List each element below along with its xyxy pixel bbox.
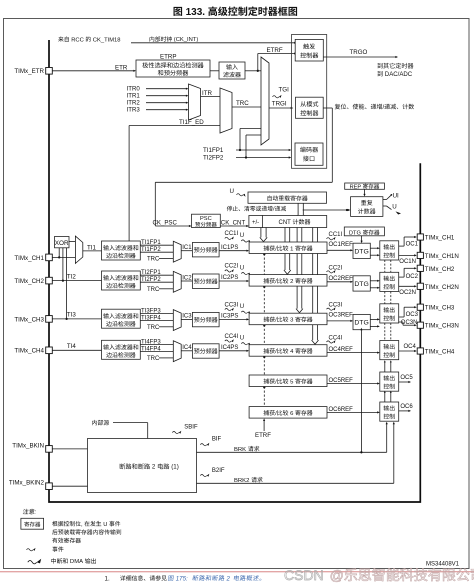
svg-text:TRC: TRC (147, 257, 160, 263)
svg-text:TRGI: TRGI (272, 101, 287, 108)
wire ETR (52, 64, 136, 72)
svg-text:ETRF: ETRF (255, 432, 271, 439)
wire TI2FP2 (140, 277, 173, 283)
svg-text:TRC: TRC (147, 356, 160, 362)
svg-text:BRK2: BRK2 (234, 478, 251, 484)
svg-text:BIF: BIF (212, 436, 222, 442)
svg-text:CK_TIM18: CK_TIM18 (91, 37, 120, 43)
svg-text:IC1: IC1 (182, 245, 192, 251)
wire IC4PS (219, 345, 249, 352)
pin TIMx_CH3N output (417, 322, 423, 328)
svg-text:RCC: RCC (70, 37, 86, 43)
svg-text:TIMx_CH4: TIMx_CH4 (14, 348, 44, 355)
U event into auto-reload (230, 188, 246, 197)
svg-text:5: 5 (289, 379, 296, 385)
svg-text:TIMx_CH2N: TIMx_CH2N (425, 284, 459, 291)
output control box 5 (380, 372, 399, 391)
svg-text:4: 4 (289, 349, 296, 355)
svg-text:TRC: TRC (147, 287, 160, 293)
svg-text:,: , (81, 522, 84, 528)
label TIMx_CH1N right (425, 253, 459, 260)
svg-text:DTG: DTG (354, 248, 368, 255)
pin TIMx_BKIN2 (46, 483, 53, 490)
svg-text:XOR: XOR (55, 240, 69, 247)
mux IC3 select (173, 310, 181, 331)
wire TI1 (83, 244, 102, 251)
input filter & edge detector box ch3 (102, 309, 141, 328)
svg-text:CC1I: CC1I (225, 231, 239, 237)
svg-text:TI2FP2: TI2FP2 (141, 277, 161, 283)
repetition counter box (351, 197, 383, 217)
label ETRP (160, 54, 177, 61)
wire CK_PSC (153, 219, 192, 227)
label TGI with event squiggle (273, 86, 290, 98)
svg-text:TIMx_CH2: TIMx_CH2 (425, 266, 455, 273)
links between output controls (384, 260, 392, 402)
pin TIMx_CH3 (46, 316, 53, 323)
svg-text:TGI: TGI (279, 86, 290, 93)
mux IC2 select (173, 271, 181, 292)
wire OC1 (399, 236, 419, 247)
label stop clear up/down (227, 206, 286, 213)
svg-text:TI4FP4: TI4FP4 (141, 347, 161, 353)
mux TI1 select (69, 236, 83, 263)
mux trigger select (tall) (261, 57, 269, 145)
wire IC1PS (219, 245, 249, 252)
pin TIMx_CH1 (46, 254, 53, 261)
svg-text:@: @ (330, 567, 344, 583)
wire TI1 pin to xor-mux (52, 256, 75, 258)
arrow REP to repetition counter (363, 189, 365, 196)
wire IC3 (181, 314, 192, 320)
DTG box 3 (353, 314, 370, 329)
svg-text:6: 6 (289, 411, 296, 417)
wire TI3 (52, 312, 101, 319)
svg-text:DTG: DTG (349, 230, 363, 236)
svg-text:ITR2: ITR2 (127, 100, 141, 107)
prescaler box ch4 (192, 344, 219, 358)
plus-minus box (249, 216, 263, 228)
wire IC3PS (219, 314, 249, 321)
svg-text:+/-: +/- (252, 220, 259, 226)
label TIMx_BKIN2 (9, 479, 45, 486)
PSC prescaler box (192, 214, 221, 227)
svg-text:IC3PS: IC3PS (221, 314, 238, 320)
mux IC4 select (173, 341, 181, 362)
svg-text:/: / (383, 105, 385, 111)
wire OC2 (399, 267, 419, 280)
svg-text:U: U (102, 522, 109, 528)
svg-text:CSDN: CSDN (284, 567, 328, 583)
wire OC3N (399, 320, 418, 326)
svg-text:B2IF: B2IF (212, 468, 225, 474)
label reset enable updown count (335, 104, 414, 111)
label SBIF event (172, 425, 198, 434)
wire TI1FP1 (140, 240, 173, 246)
legend text line1 (52, 521, 120, 528)
CC2I capture event marker (225, 264, 251, 276)
svg-text:DAC/ADC: DAC/ADC (383, 71, 413, 78)
label TIMx_CH4 right (425, 349, 455, 356)
svg-text:DMA: DMA (68, 559, 84, 565)
svg-text:CC1I: CC1I (329, 232, 343, 238)
wire ITR to mux2 (201, 96, 221, 98)
legend text line3 (52, 538, 81, 543)
svg-text:ETR: ETR (115, 64, 128, 71)
DTG box 2 (353, 276, 370, 291)
arrow DTG-reg to DTG1 (361, 236, 363, 243)
wire OC3REF (327, 312, 353, 322)
svg-text:TRC: TRC (236, 100, 249, 107)
polarity selection and edge detector + prescaler box (136, 60, 210, 77)
label TIMx_CH2N right (425, 284, 459, 291)
svg-text:IC1PS: IC1PS (221, 245, 238, 251)
wire TRC ch3 (147, 325, 173, 331)
wire OC2REF (327, 276, 353, 283)
wire TI2FP2 (203, 135, 291, 162)
svg-text:OC4REF: OC4REF (329, 347, 354, 353)
svg-text:TIMx_CH3N: TIMx_CH3N (425, 323, 459, 330)
wires ITR0-3 to mux (146, 88, 189, 111)
svg-text:IC4: IC4 (182, 345, 192, 351)
svg-text:TI4: TI4 (67, 343, 76, 350)
wire slave mode out (323, 107, 327, 109)
svg-text:TI4FP3: TI4FP3 (141, 340, 161, 346)
capture/compare 5 register box (249, 375, 327, 387)
wire OC6 internal (399, 404, 414, 412)
prescaler box ch2 (192, 274, 219, 288)
pin TIMx_CH4 (46, 347, 53, 354)
wire CK_CNT (220, 219, 249, 227)
comparison lines CNT to capture/compare registers (260, 228, 319, 407)
svg-text:175:: 175: (174, 575, 189, 582)
svg-text:ITR0: ITR0 (127, 86, 141, 93)
svg-text:IC2: IC2 (182, 275, 192, 281)
svg-text:TIMx_CH1: TIMx_CH1 (425, 235, 455, 242)
wire internal source to break box (113, 423, 148, 439)
CC1I capture event marker (225, 231, 251, 243)
svg-text:TI1FP2: TI1FP2 (141, 247, 161, 253)
input filter & edge detector box ch2 (102, 271, 141, 290)
wires DTG2 to output control (370, 280, 380, 289)
label BIF event (200, 436, 221, 445)
wire TI1F_ED (129, 119, 220, 241)
svg-text:U: U (240, 266, 244, 272)
svg-text:OC1: OC1 (406, 241, 419, 247)
label CC2I right (327, 265, 343, 273)
svg-text:CC3I: CC3I (329, 303, 343, 309)
break and break2 circuit box (88, 439, 197, 493)
svg-text:OC1REF: OC1REF (329, 242, 354, 248)
svg-text:TI2: TI2 (67, 273, 76, 280)
legend event symbol (27, 546, 64, 551)
label TIMx_CH4 (14, 348, 44, 355)
label TIMx_CH3 (14, 316, 44, 323)
svg-text:TIMx_CH4: TIMx_CH4 (425, 349, 455, 356)
pin TIMx_BKIN (46, 446, 53, 453)
wire IC2PS (219, 275, 249, 282)
CNT counter box (262, 216, 326, 228)
svg-text:(1): (1) (170, 464, 179, 471)
auto-reload register box (248, 192, 327, 203)
svg-text:ITR: ITR (202, 90, 212, 97)
pin TIMx_CH1 output (417, 234, 423, 240)
svg-text:OC6REF: OC6REF (329, 407, 354, 413)
labels ITR0-ITR3 (127, 86, 141, 114)
legend interrupt/DMA symbol (28, 558, 96, 565)
controller group box (292, 35, 327, 169)
svg-text:U: U (240, 233, 244, 239)
legend note heading (23, 509, 37, 516)
svg-text:TIMx_BKIN: TIMx_BKIN (12, 443, 44, 450)
label internal source (92, 420, 109, 425)
U switch and label (383, 203, 401, 214)
pin TIMx_ETR (46, 68, 53, 75)
wire TRC to trigger mux (232, 100, 261, 107)
svg-text:1: 1 (289, 246, 296, 252)
wire OC6REF (327, 407, 380, 414)
wire slave-mode controls to clock path (reset/enable/updown) (155, 108, 332, 226)
label TIMx_CH2 (14, 278, 44, 285)
output control box 1 (380, 241, 399, 260)
footnote number (105, 575, 110, 582)
label CK_TIM18 from RCC (58, 36, 120, 43)
svg-text:REP: REP (350, 184, 363, 190)
XOR box (55, 237, 70, 248)
svg-text:OC3N: OC3N (401, 320, 418, 326)
pin TIMx_CH3 output (417, 304, 423, 310)
pin TIMx_CH2N output (417, 283, 423, 289)
label TIMx_CH2 right (425, 266, 455, 273)
pin TIMx_CH2 output (417, 265, 423, 271)
DTG box 1 (353, 243, 370, 258)
trigger controller box (295, 39, 323, 61)
wire OC4 (399, 344, 417, 352)
svg-text:SBIF: SBIF (184, 425, 198, 431)
capture/compare 4 register box (249, 345, 327, 357)
wire BKIN2 to break box (52, 485, 87, 487)
wire OC1N (399, 254, 417, 265)
wire TRGI (269, 101, 293, 109)
watermark CSDN (284, 567, 474, 583)
svg-text:OC4: OC4 (404, 344, 417, 350)
output control box 2 (380, 272, 399, 291)
svg-text:TI2FP2: TI2FP2 (203, 155, 224, 162)
footnote link text (168, 575, 261, 582)
svg-text:U: U (230, 188, 234, 195)
svg-text:TIMx_BKIN2: TIMx_BKIN2 (9, 479, 45, 486)
svg-text:OC2REF: OC2REF (329, 276, 354, 282)
svg-text:TRGO: TRGO (350, 49, 368, 56)
wire TI1FP2 (140, 247, 173, 253)
wire TRGO (323, 49, 398, 58)
input filter & edge detector box ch1 (102, 241, 141, 260)
wire TI2 (52, 273, 101, 280)
label MS34408V1 (426, 562, 460, 568)
CC4I capture event marker (225, 334, 251, 346)
svg-text:1.: 1. (105, 575, 110, 582)
wire IC4 (181, 345, 192, 351)
mux IC1 select (173, 241, 181, 262)
svg-text:TRC: TRC (147, 325, 160, 331)
capture/compare 2 register box (249, 275, 327, 287)
svg-text:DTG: DTG (354, 320, 368, 327)
svg-text:CC2I: CC2I (225, 264, 239, 270)
wire TI2FP1 (140, 270, 173, 276)
label TIMx_CH3N right (425, 323, 459, 330)
label BRK2 request (234, 477, 263, 484)
mux ITR select (189, 84, 201, 120)
wire ETRF to CC6 (255, 418, 271, 439)
svg-text:OC3: OC3 (406, 312, 419, 318)
wire U to repetition counter (303, 209, 351, 211)
svg-text:IC4PS: IC4PS (221, 345, 238, 351)
wire OC5REF (327, 378, 380, 385)
wire OC3 (399, 306, 419, 318)
svg-text:2: 2 (150, 464, 157, 471)
svg-text:OC2: OC2 (406, 274, 419, 280)
pin TIMx_CH1N output (417, 252, 423, 258)
prescaler box ch1 (192, 243, 219, 257)
slave mode controller box (296, 97, 324, 118)
output control box 4 (380, 341, 399, 360)
output control box 6 (380, 402, 399, 421)
wire TI3FP3 (140, 308, 173, 314)
label to other timers / DAC/ADC (377, 63, 413, 78)
svg-text:CC3I: CC3I (225, 302, 239, 308)
DTG register box (344, 227, 384, 236)
label TIMx_CH1 (14, 255, 44, 262)
wire ETRP to input filter (210, 70, 219, 72)
label B2IF event (200, 468, 225, 477)
svg-text:BRK: BRK (234, 447, 248, 453)
prescaler box ch3 (192, 312, 219, 326)
svg-text:OC5REF: OC5REF (329, 378, 354, 384)
svg-text:OC3REF: OC3REF (329, 312, 354, 318)
wire IC2 (181, 275, 192, 281)
svg-text:TIMx_CH3: TIMx_CH3 (425, 305, 455, 312)
title 图133 advanced-control timer block diagram (174, 6, 298, 18)
pin TIMx_CH4 output (417, 348, 423, 354)
label ITR (202, 90, 212, 97)
wire OC1REF (327, 242, 353, 251)
svg-text:TI2FP1: TI2FP1 (141, 270, 161, 276)
wire TRC ch2 (147, 287, 173, 293)
svg-text:CC2I: CC2I (329, 265, 343, 271)
output control box 3 (380, 304, 399, 323)
svg-text:U: U (240, 304, 244, 310)
svg-text:MS34408V1: MS34408V1 (426, 562, 460, 568)
capture/compare 1 register box (249, 242, 327, 254)
label CC1I right (327, 232, 343, 240)
svg-text:3: 3 (289, 318, 296, 324)
svg-text:TIMx_CH2: TIMx_CH2 (14, 278, 44, 285)
wires DTG1 to output control (370, 247, 380, 256)
legend register box (21, 518, 44, 529)
wire TI4FP3 (140, 340, 173, 346)
svg-text:TIMx_CH3: TIMx_CH3 (14, 316, 44, 323)
footnote text (120, 575, 167, 581)
svg-text:UI: UI (393, 193, 399, 200)
label TIMx_ETR (14, 68, 44, 75)
legend text line2 (52, 529, 121, 534)
preload transfer arrow (297, 203, 304, 219)
svg-text:TI1F_ED: TI1F_ED (179, 119, 204, 126)
svg-text:/: / (273, 207, 275, 213)
input filter box (219, 62, 245, 79)
wire TI3FP4 (140, 315, 173, 321)
wire BKIN to break box (52, 448, 87, 450)
svg-text:TI3FP3: TI3FP3 (141, 308, 161, 314)
label TIMx_CH3 right (425, 305, 455, 312)
wire TRC ch1 (147, 257, 173, 263)
svg-text:(CK_INT): (CK_INT) (172, 37, 198, 43)
svg-text::: : (34, 510, 36, 516)
wire OC4REF (327, 347, 380, 354)
capture/compare 6 register box (249, 407, 327, 419)
svg-text:CC4I: CC4I (329, 335, 343, 341)
input filter & edge detector box ch4 (102, 340, 141, 359)
wire TRC ch4 (147, 356, 173, 362)
label BRK request (234, 446, 259, 453)
label TIMx_CH1 right (425, 235, 455, 242)
svg-text:U: U (392, 203, 396, 210)
svg-text:TIMx_CH1: TIMx_CH1 (14, 255, 44, 262)
svg-text:DTG: DTG (354, 281, 368, 288)
svg-text:ITR1: ITR1 (127, 93, 141, 100)
svg-text:TI3: TI3 (67, 312, 76, 319)
svg-text:CK_CNT: CK_CNT (221, 219, 246, 226)
wire BRK2 request (197, 422, 395, 484)
svg-text:U: U (240, 336, 244, 342)
wire CK_INT with underline (131, 42, 296, 44)
svg-text:ETRP: ETRP (160, 54, 177, 61)
pin TIMx_CH2 (46, 277, 53, 284)
svg-text:ETRF: ETRF (267, 47, 283, 54)
wire TI1FP1 (203, 129, 291, 155)
svg-text:CK_PSC: CK_PSC (153, 219, 178, 226)
svg-text:OC5: OC5 (400, 375, 413, 381)
label internal clock CK_INT (150, 36, 199, 43)
CC3I capture event marker (225, 302, 251, 314)
XOR input taps (58, 248, 68, 320)
svg-text:133.: 133. (183, 7, 208, 18)
svg-text:TI1FP1: TI1FP1 (203, 147, 224, 154)
encoder interface box (295, 143, 323, 165)
svg-text:2: 2 (225, 575, 232, 582)
left/bottom/right bus (pin rail) (49, 40, 420, 502)
svg-text:TIMx_CH1N: TIMx_CH1N (425, 253, 459, 260)
wire OC5 internal (399, 375, 414, 383)
svg-text:TI3FP4: TI3FP4 (141, 315, 161, 321)
svg-text:OC2N: OC2N (399, 290, 416, 296)
svg-text:CC4I: CC4I (225, 334, 239, 340)
svg-text:ITR3: ITR3 (127, 107, 141, 114)
svg-text:IC3: IC3 (182, 314, 192, 320)
wire ETRF to trigger controller (245, 52, 296, 72)
UI switch and label (383, 193, 399, 200)
wire TI4 (52, 343, 101, 350)
svg-text:2: 2 (289, 279, 296, 285)
svg-text:TIMx_ETR: TIMx_ETR (14, 68, 44, 75)
svg-text:TI1: TI1 (87, 244, 96, 251)
svg-text:CNT: CNT (279, 220, 293, 226)
wire BRK request (197, 328, 388, 454)
wire IC1 (181, 245, 192, 251)
svg-text:OC1N: OC1N (399, 259, 416, 265)
mux TRGI inputs (220, 88, 232, 133)
label TIMx_BKIN (12, 443, 44, 450)
